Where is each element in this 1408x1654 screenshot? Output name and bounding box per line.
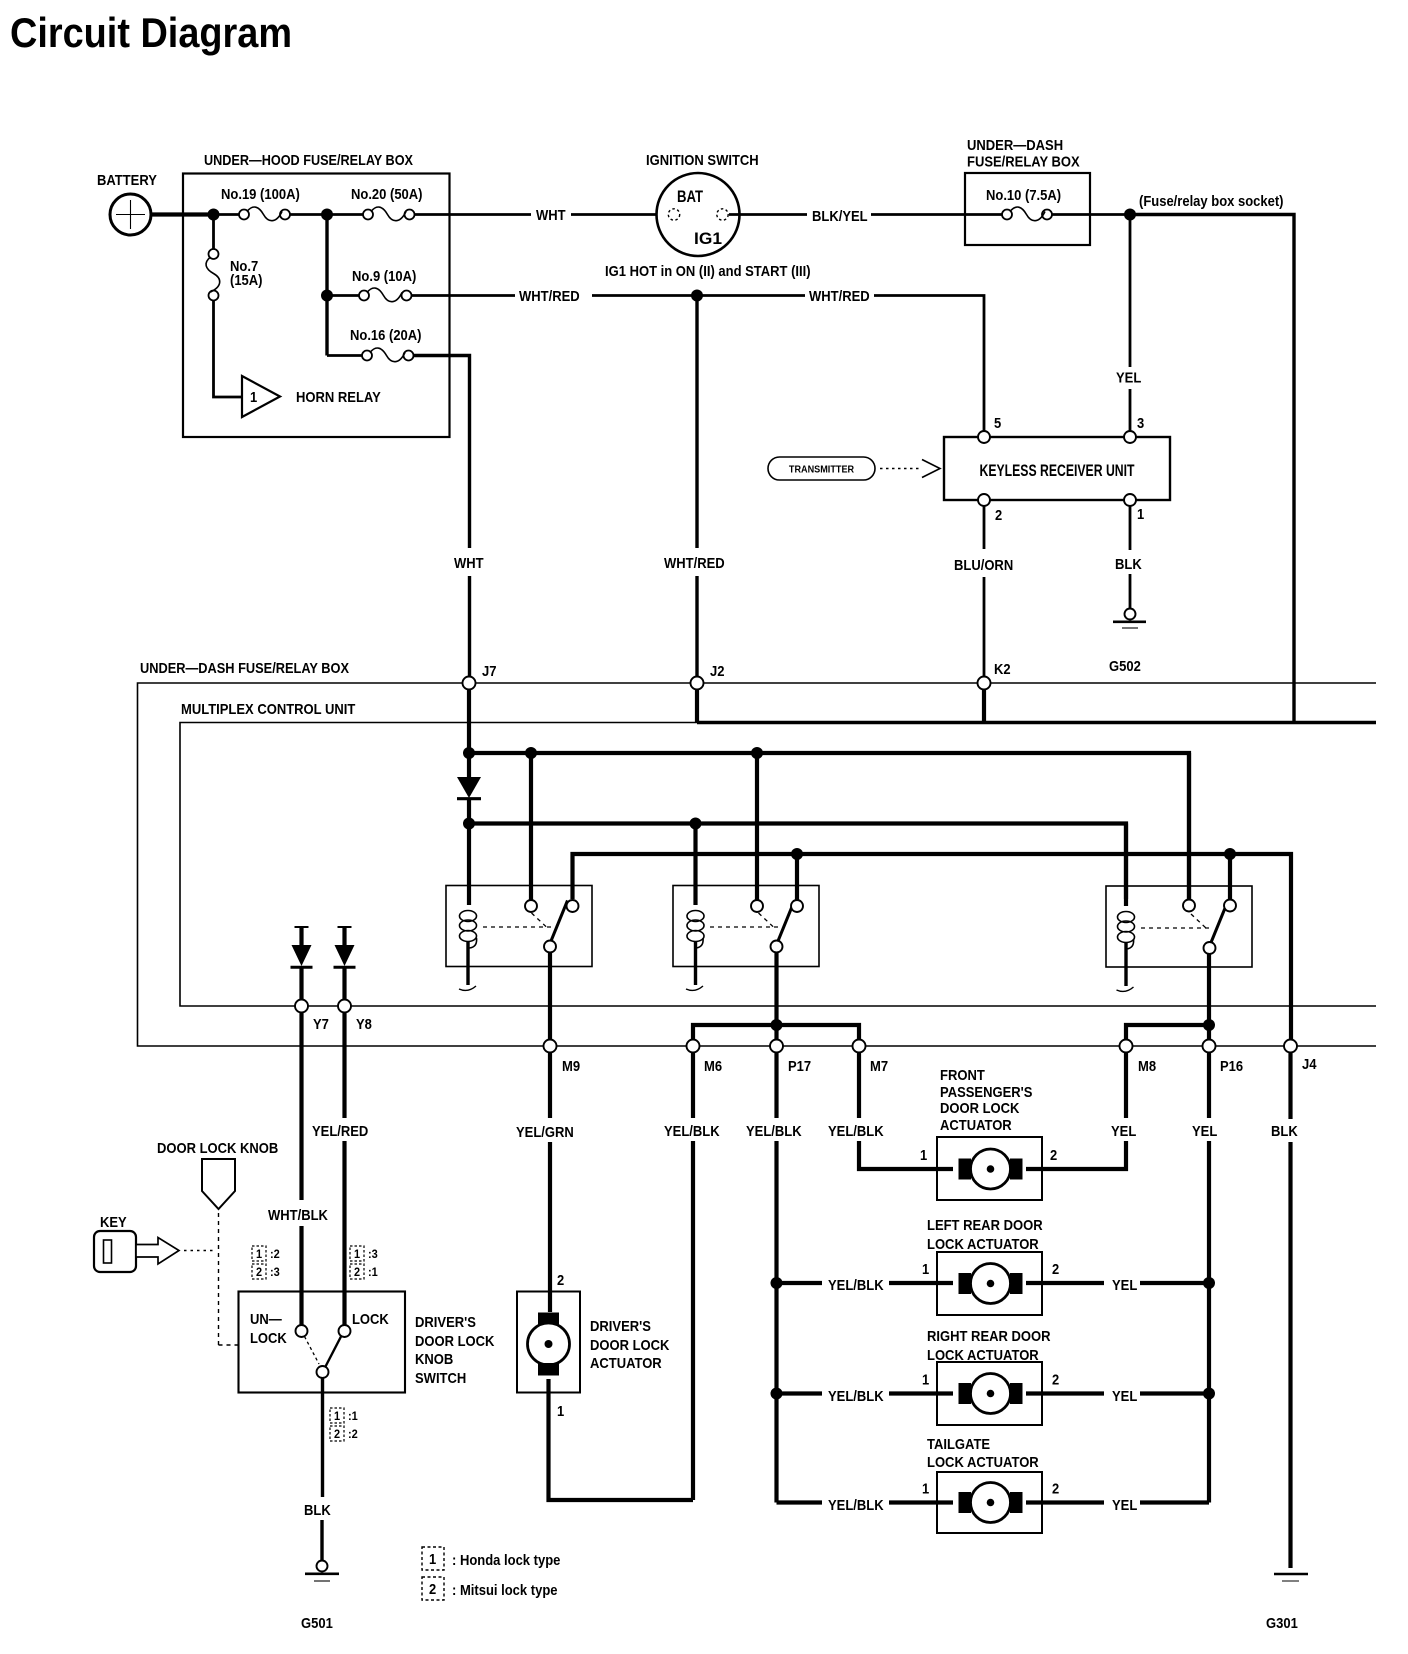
driver's door lock knob switch S1	[239, 1292, 406, 1393]
svg-text:Circuit Diagram: Circuit Diagram	[10, 9, 292, 56]
svg-text:1: 1	[429, 1551, 436, 1568]
svg-text:J7: J7	[482, 663, 497, 680]
wire J4 BLK to G301	[1271, 1053, 1298, 1569]
node J7	[463, 663, 497, 690]
left rear door lock actuator M3	[922, 1217, 1059, 1315]
svg-text:YEL: YEL	[1192, 1123, 1217, 1140]
svg-text:YEL: YEL	[1112, 1497, 1137, 1514]
svg-text:YEL/BLK: YEL/BLK	[828, 1388, 884, 1405]
node J2	[691, 663, 725, 690]
svg-text:G301: G301	[1266, 1615, 1298, 1632]
svg-text:DRIVER'S: DRIVER'S	[415, 1314, 476, 1331]
diode Y8 branch	[334, 927, 356, 1000]
svg-text:RIGHT REAR DOOR: RIGHT REAR DOOR	[927, 1328, 1051, 1345]
svg-text:2: 2	[1052, 1481, 1059, 1498]
front passenger's door lock actuator M2	[920, 1067, 1057, 1200]
svg-text::1: :1	[348, 1409, 358, 1423]
wire relay K3 output T-bar (M8/P16)	[1126, 954, 1215, 1040]
fuse No.20 (50A)	[351, 186, 423, 221]
key symbol	[94, 1214, 214, 1272]
svg-text:No.10 (7.5A): No.10 (7.5A)	[986, 187, 1061, 204]
tailgate lock actuator M5	[922, 1436, 1059, 1533]
keyless receiver unit U1	[944, 437, 1170, 500]
svg-text:1: 1	[922, 1481, 929, 1498]
svg-text:2: 2	[557, 1272, 564, 1289]
svg-text:BLK: BLK	[304, 1502, 331, 1519]
svg-text:G501: G501	[301, 1615, 333, 1632]
wire Y8 YEL/RED to lock contact	[312, 1013, 368, 1326]
svg-text:LOCK ACTUATOR: LOCK ACTUATOR	[927, 1236, 1039, 1253]
ground G502	[1109, 609, 1146, 676]
svg-text:LOCK ACTUATOR: LOCK ACTUATOR	[927, 1454, 1039, 1471]
svg-text:DOOR LOCK: DOOR LOCK	[590, 1337, 670, 1354]
svg-text:YEL/BLK: YEL/BLK	[828, 1277, 884, 1294]
svg-text:BAT: BAT	[677, 188, 703, 206]
fuse No.7 (15A) vertical	[206, 215, 262, 301]
svg-text:P16: P16	[1220, 1058, 1243, 1075]
svg-text:BLU/ORN: BLU/ORN	[954, 557, 1013, 574]
wire BLK/YEL ignition to under-dash fuse box	[729, 208, 1002, 225]
wire P17 YEL/BLK trunk	[746, 1053, 802, 1503]
wire YEL to keyless pin3	[1116, 215, 1141, 432]
switch legend 1:3 2:1	[350, 1246, 378, 1279]
svg-text:WHT/RED: WHT/RED	[809, 288, 870, 305]
diode Y7 branch	[291, 927, 313, 1000]
relay K3 (unlock relay)	[1106, 886, 1252, 991]
title Circuit Diagram	[10, 9, 292, 56]
multiplex control unit box	[180, 701, 1376, 1006]
svg-text:WHT/RED: WHT/RED	[664, 555, 725, 572]
svg-text:DOOR LOCK: DOOR LOCK	[415, 1333, 495, 1350]
wire relay K1 output to M9	[548, 953, 552, 1040]
svg-text:UNDER—HOOD FUSE/RELAY BOX: UNDER—HOOD FUSE/RELAY BOX	[204, 152, 413, 169]
door lock knob	[157, 1140, 278, 1345]
wire J2 stub	[695, 690, 699, 723]
svg-text:YEL/BLK: YEL/BLK	[828, 1497, 884, 1514]
node M8	[1120, 1040, 1157, 1076]
fuse No.16 (20A)	[327, 327, 422, 362]
relay K2m (passenger lock relay)	[673, 886, 819, 991]
wire battery to under-hood box (node A)	[151, 212, 240, 216]
svg-text:(Fuse/relay box socket): (Fuse/relay box socket)	[1139, 193, 1284, 210]
svg-text:YEL/BLK: YEL/BLK	[746, 1123, 802, 1140]
under-dash fuse/relay box (main outline)	[138, 660, 1377, 1046]
bus C (lower)	[573, 848, 1292, 1040]
svg-text:M6: M6	[704, 1058, 722, 1075]
wire BLU/ORN pin2 to K2	[954, 507, 1013, 723]
wire M7 YEL/BLK to passenger actuator	[828, 1053, 953, 1170]
svg-text::1: :1	[368, 1265, 378, 1279]
svg-text:PASSENGER'S: PASSENGER'S	[940, 1084, 1032, 1101]
svg-text:K2: K2	[994, 661, 1011, 678]
fuse No.19 (100A)	[221, 186, 300, 221]
ground G301	[1266, 1574, 1308, 1632]
svg-text:YEL: YEL	[1112, 1388, 1137, 1405]
wire BLK pin1 to G502	[1115, 507, 1142, 609]
svg-text:IG1: IG1	[694, 230, 722, 248]
pin 2	[978, 494, 1002, 524]
svg-text:M9: M9	[562, 1058, 580, 1075]
svg-text::3: :3	[368, 1247, 378, 1261]
wire J7 to bus A	[467, 690, 471, 754]
node M9	[544, 1040, 581, 1076]
svg-text:1: 1	[922, 1261, 929, 1278]
svg-text:YEL: YEL	[1112, 1277, 1137, 1294]
svg-text:UN—: UN—	[250, 1311, 282, 1328]
switch legend 1:1 2:2	[330, 1408, 358, 1441]
svg-text:5: 5	[994, 415, 1001, 432]
svg-text:KNOB: KNOB	[415, 1351, 453, 1368]
svg-text:ACTUATOR: ACTUATOR	[590, 1355, 662, 1372]
svg-text:UNDER—DASH FUSE/RELAY BOX: UNDER—DASH FUSE/RELAY BOX	[140, 660, 349, 677]
junction main/No.9 branch	[321, 209, 333, 221]
svg-text:LOCK: LOCK	[352, 1311, 389, 1328]
svg-text:WHT: WHT	[536, 207, 566, 224]
svg-text:FUSE/RELAY BOX: FUSE/RELAY BOX	[967, 154, 1080, 171]
node P16	[1203, 1040, 1244, 1076]
svg-text:HORN RELAY: HORN RELAY	[296, 389, 381, 406]
legend honda lock type	[422, 1547, 560, 1570]
svg-text:KEY: KEY	[100, 1214, 127, 1231]
relay K1 (driver lock relay)	[446, 886, 592, 991]
node M7	[853, 1040, 889, 1076]
svg-text:M7: M7	[870, 1058, 888, 1075]
wire relay K2m output T-bar (M6/P17/M7)	[693, 953, 859, 1040]
svg-text:1: 1	[922, 1372, 929, 1389]
ground G501	[301, 1561, 339, 1633]
wire YEL/BLK P17 to tailgate actuator	[777, 1497, 954, 1514]
wire No.7 to horn relay	[214, 300, 243, 397]
svg-text:No.16 (20A): No.16 (20A)	[350, 327, 422, 344]
svg-text:WHT/BLK: WHT/BLK	[268, 1207, 328, 1224]
svg-text::3: :3	[270, 1265, 280, 1279]
svg-text:J2: J2	[710, 663, 725, 680]
svg-text:BLK: BLK	[1271, 1123, 1298, 1140]
svg-text:BLK: BLK	[1115, 556, 1142, 573]
wire WHT fuse20 to ignition switch	[414, 207, 668, 224]
wire M6 YEL/BLK down	[664, 1053, 720, 1501]
wire switch common BLK to G501	[304, 1379, 331, 1561]
node Y7	[295, 1000, 329, 1034]
wire driver actuator pin1 to M6	[549, 1379, 694, 1500]
svg-text:2: 2	[354, 1265, 360, 1279]
wire IG1 down to J2	[664, 296, 725, 677]
wire YEL tailgate actuator to P16	[1026, 1497, 1209, 1514]
svg-text:2: 2	[256, 1265, 262, 1279]
svg-text:1: 1	[256, 1247, 262, 1261]
svg-text:YEL/GRN: YEL/GRN	[516, 1124, 574, 1141]
svg-text:LOCK: LOCK	[250, 1330, 287, 1347]
svg-text:MULTIPLEX CONTROL UNIT: MULTIPLEX CONTROL UNIT	[181, 701, 355, 718]
switch legend 1:2 2:3	[252, 1246, 280, 1279]
svg-text:WHT: WHT	[454, 555, 484, 572]
svg-text:P17: P17	[788, 1058, 811, 1075]
wire Y7 WHT/BLK to unlock contact	[268, 1013, 328, 1326]
svg-text:IGNITION SWITCH: IGNITION SWITCH	[646, 152, 759, 169]
fuse No.10 (7.5A)	[986, 187, 1061, 221]
svg-text:BLK/YEL: BLK/YEL	[812, 208, 868, 225]
svg-text:YEL/RED: YEL/RED	[312, 1123, 368, 1140]
svg-text::2: :2	[270, 1247, 280, 1261]
svg-text:2: 2	[1052, 1261, 1059, 1278]
wire M8 YEL to passenger actuator pin2	[1026, 1053, 1136, 1170]
node J4	[1284, 1040, 1317, 1074]
bus A (upper)	[463, 747, 1189, 899]
svg-text:YEL/BLK: YEL/BLK	[828, 1123, 884, 1140]
wire WHT/RED fuse9 to keyless pin5	[411, 288, 984, 431]
wire M9 YEL/GRN to driver actuator pin2	[516, 1053, 574, 1313]
junction No.9	[321, 290, 333, 302]
wire YEL/BLK P17 to right rear actuator	[771, 1388, 954, 1406]
battery B1	[97, 172, 157, 235]
svg-text:DOOR LOCK: DOOR LOCK	[940, 1100, 1020, 1117]
wire YEL left rear actuator to P16	[1026, 1277, 1215, 1294]
svg-text:Y8: Y8	[356, 1016, 372, 1033]
svg-text:1: 1	[557, 1403, 564, 1420]
svg-text:TRANSMITTER: TRANSMITTER	[789, 464, 855, 476]
horn relay triangle	[242, 376, 381, 417]
node P17	[770, 1040, 811, 1076]
svg-text:2: 2	[1050, 1147, 1057, 1164]
svg-text:No.9 (10A): No.9 (10A)	[352, 268, 416, 285]
svg-text:YEL: YEL	[1111, 1123, 1136, 1140]
svg-text:YEL/BLK: YEL/BLK	[664, 1123, 720, 1140]
under-dash fuse/relay box (top)	[965, 137, 1090, 245]
svg-text:DRIVER'S: DRIVER'S	[590, 1318, 651, 1335]
svg-text:G502: G502	[1109, 658, 1141, 675]
svg-text:TAILGATE: TAILGATE	[927, 1436, 990, 1453]
svg-text:YEL: YEL	[1116, 370, 1141, 387]
svg-text:1: 1	[920, 1147, 927, 1164]
ignition switch	[646, 152, 759, 256]
pin 5	[978, 415, 1001, 443]
wire YEL/BLK P17 to left rear actuator	[771, 1277, 954, 1294]
svg-text:BATTERY: BATTERY	[97, 172, 157, 189]
svg-text:(15A): (15A)	[230, 272, 263, 289]
bus B (middle)	[463, 818, 1126, 900]
svg-text:No.19 (100A): No.19 (100A)	[221, 186, 300, 203]
svg-text:2: 2	[995, 507, 1002, 524]
transmitter	[768, 457, 940, 480]
wire YEL right rear actuator to P16	[1026, 1388, 1215, 1406]
label IG1 HOT	[605, 263, 811, 280]
svg-text:J4: J4	[1302, 1056, 1317, 1073]
junction socket/YEL	[1124, 209, 1136, 221]
svg-text:DOOR LOCK KNOB: DOOR LOCK KNOB	[157, 1140, 278, 1157]
svg-text:: Mitsui lock type: : Mitsui lock type	[452, 1582, 558, 1599]
relay feed wires	[469, 753, 1230, 906]
svg-text:KEYLESS RECEIVER UNIT: KEYLESS RECEIVER UNIT	[980, 461, 1135, 480]
wire fuse10 to socket corner	[1052, 193, 1294, 723]
legend mitsui lock type	[422, 1577, 558, 1600]
label driver's door lock knob switch	[415, 1314, 495, 1387]
svg-text:1: 1	[250, 389, 257, 406]
svg-text:WHT/RED: WHT/RED	[519, 288, 580, 305]
svg-text:M8: M8	[1138, 1058, 1156, 1075]
right rear door lock actuator M4	[922, 1328, 1059, 1425]
under-hood fuse/relay box	[183, 152, 450, 437]
wire No.9 branch vertical	[325, 215, 328, 356]
svg-text:2: 2	[1052, 1372, 1059, 1389]
wire P16 YEL trunk	[1192, 1053, 1217, 1503]
node M6	[687, 1040, 723, 1076]
node Y8	[338, 1000, 372, 1034]
wire WHT fuse16 down to J7	[413, 356, 484, 677]
svg-text:IG1 HOT in ON (II) and START (: IG1 HOT in ON (II) and START (III)	[605, 263, 811, 280]
svg-text:No.20 (50A): No.20 (50A)	[351, 186, 423, 203]
diode D1	[457, 753, 481, 824]
svg-text:2: 2	[429, 1581, 436, 1598]
pin 3	[1124, 415, 1144, 443]
svg-text:UNDER—DASH: UNDER—DASH	[967, 137, 1063, 154]
junction battery/No.7	[208, 209, 220, 221]
svg-text:LEFT REAR DOOR: LEFT REAR DOOR	[927, 1217, 1043, 1234]
svg-text:SWITCH: SWITCH	[415, 1370, 466, 1387]
pin 1	[1124, 494, 1144, 523]
svg-text:1: 1	[1137, 506, 1144, 523]
svg-text:: Honda lock type: : Honda lock type	[452, 1552, 560, 1569]
wire fuse19 to fuse20	[290, 213, 364, 216]
svg-text:Y7: Y7	[313, 1016, 329, 1033]
svg-text::2: :2	[348, 1427, 358, 1441]
svg-text:ACTUATOR: ACTUATOR	[940, 1117, 1012, 1134]
svg-text:FRONT: FRONT	[940, 1067, 985, 1084]
svg-text:2: 2	[334, 1427, 340, 1441]
node K2	[978, 661, 1011, 690]
fuse No.9 (10A)	[327, 268, 416, 302]
svg-text:3: 3	[1137, 415, 1144, 432]
svg-text:1: 1	[354, 1247, 360, 1261]
svg-text:1: 1	[334, 1409, 340, 1423]
driver's door lock actuator M1	[517, 1272, 670, 1420]
junction WHT/RED / ignition IG1	[691, 290, 703, 302]
